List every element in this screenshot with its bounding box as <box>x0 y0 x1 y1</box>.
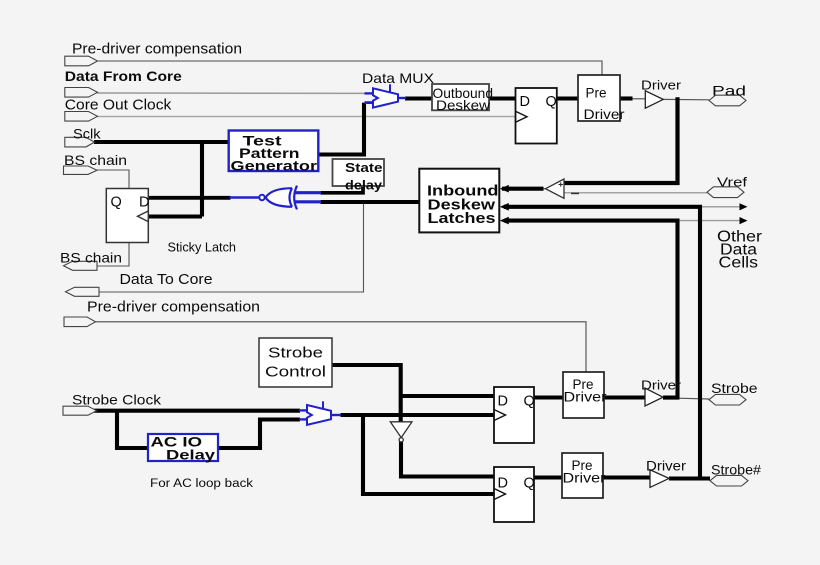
svg-text:Core Out Clock: Core Out Clock <box>65 98 172 114</box>
svg-text:delay: delay <box>345 178 383 193</box>
net label BS chain (output) <box>60 250 122 266</box>
wire sticky latch scan-out to BS chain output <box>97 243 129 267</box>
Test Pattern Generator block <box>229 131 319 174</box>
junction arrowhead into Inbound Deskew Latches upper feedback <box>500 203 509 211</box>
arrowhead to other data cells lower <box>740 217 748 224</box>
wire driver U12 output to Strobe# port <box>669 476 710 480</box>
mux strobe clock U3b <box>299 401 341 425</box>
net label Pre-driver compensation (bottom) <box>87 299 260 316</box>
svg-text:Cells: Cells <box>719 255 759 272</box>
svg-text:Data To Core: Data To Core <box>120 272 213 288</box>
svg-text:Driver: Driver <box>563 471 607 486</box>
wire driver U9 output to strobe net junction <box>663 396 680 400</box>
wire receiver U7 output stub <box>543 188 547 190</box>
net label Vref <box>717 175 747 190</box>
svg-text:D: D <box>498 394 508 410</box>
Pre Driver U8 block <box>563 372 607 418</box>
wire strobe# flip-flop Q to Pre Driver U11 <box>534 475 562 479</box>
wire Vref to receiver minus input <box>564 192 707 194</box>
svg-text:For AC loop back: For AC loop back <box>150 478 253 490</box>
wire strobe feedback into Inbound Deskew Latches (upper) <box>504 207 700 479</box>
Outbound Deskew block <box>432 84 493 113</box>
label For AC loop back <box>150 478 253 490</box>
AC IO Delay block <box>148 434 218 463</box>
svg-text:Q: Q <box>524 394 535 410</box>
svg-text:D: D <box>139 195 149 211</box>
svg-text:Driver: Driver <box>641 378 682 393</box>
svg-text:State: State <box>345 160 383 175</box>
wire receiver U7 output to Inbound Deskew Latches <box>502 187 544 191</box>
svg-text:Latches: Latches <box>428 210 496 227</box>
driver U12 (strobe# driver) <box>650 470 669 488</box>
net label Data To Core <box>120 272 213 288</box>
svg-text:Q: Q <box>111 195 122 211</box>
port Pad (bidirectional) <box>709 95 746 106</box>
wire Pre-driver compensation (top) to Pre Driver U5 <box>97 61 602 76</box>
port Data From Core input <box>65 88 98 98</box>
svg-text:Q: Q <box>546 94 557 110</box>
wire Core Out Clock to outbound flip-flop clock <box>97 116 516 118</box>
svg-text:Driver: Driver <box>564 390 608 405</box>
svg-text:Deskew: Deskew <box>436 97 491 113</box>
svg-text:Driver: Driver <box>584 107 626 122</box>
wire driver U9 output to Strobe port <box>678 397 709 400</box>
wire Test Pattern Generator output up to Data MUX input <box>318 103 364 155</box>
svg-text:D: D <box>498 476 508 492</box>
svg-text:Driver: Driver <box>641 78 682 93</box>
svg-text:Delay: Delay <box>166 447 215 463</box>
label Other Data Cells <box>717 229 762 272</box>
sticky latch U2 <box>106 189 149 243</box>
port Vref input <box>707 187 744 198</box>
net label BS chain (input) <box>64 152 127 168</box>
net label Pad <box>712 83 746 99</box>
svg-text:Data From Core: Data From Core <box>65 68 182 84</box>
strobe flip-flop U13 <box>494 387 535 443</box>
svg-text:Strobe: Strobe <box>268 345 323 362</box>
wire strobe clock branch through AC IO Delay <box>117 411 300 448</box>
svg-text:Pad: Pad <box>712 83 746 99</box>
outbound deskew flip-flop U4 <box>516 88 557 144</box>
svg-text:Q: Q <box>524 476 535 492</box>
wire Sclk to Test Pattern Generator and sticky latch clock <box>94 140 229 216</box>
State delay block <box>333 159 385 193</box>
inverter U10 <box>390 422 412 442</box>
junction arrowhead into Inbound Deskew Latches lower feedback <box>500 217 509 225</box>
svg-text:Strobe Clock: Strobe Clock <box>72 392 162 408</box>
svg-text:Driver: Driver <box>646 459 687 474</box>
label Driver (strobe# driver U12) <box>646 459 687 474</box>
net label Strobe <box>711 381 758 396</box>
receiver comparator U7 (left facing) <box>546 179 580 198</box>
port Pre-driver compensation (bottom) input <box>64 317 96 327</box>
wire strobe flip-flop Q to Pre Driver U8 <box>534 395 563 399</box>
XNOR gate U1 (left facing) <box>230 186 322 210</box>
svg-text:Pre: Pre <box>586 86 607 101</box>
net label Pre-driver compensation (top) <box>72 41 242 58</box>
wire Data MUX output through Outbound Deskew to flip-flop D <box>405 96 516 100</box>
net label Sclk <box>73 126 102 142</box>
Pre Driver U5 block <box>578 75 625 122</box>
svg-text:Strobe: Strobe <box>711 381 758 396</box>
port Pre-driver compensation (top) input <box>65 56 98 66</box>
driver U6 (pad driver) <box>645 91 663 108</box>
wire Data To Core from inbound data net <box>99 202 364 292</box>
svg-text:Vref: Vref <box>717 175 747 190</box>
label Data MUX <box>362 70 435 86</box>
strobe# flip-flop U14 <box>494 467 535 522</box>
svg-text:BS chain: BS chain <box>60 250 122 266</box>
label Sticky Latch <box>168 241 237 255</box>
Strobe Control block <box>259 338 332 387</box>
port Core Out Clock input <box>65 112 98 122</box>
arrowhead to other data cells upper <box>740 203 748 210</box>
wire strobe feedback into Inbound Deskew Latches (lower) <box>504 221 678 398</box>
svg-text:Sclk: Sclk <box>73 126 102 142</box>
svg-text:Strobe#: Strobe# <box>711 463 762 478</box>
wire BS chain input to sticky latch scan-in <box>97 170 130 189</box>
port Strobe (bidirectional) <box>709 394 746 405</box>
port Strobe Clock input <box>63 406 97 415</box>
wire XNOR output to sticky latch D <box>148 196 231 200</box>
port Data To Core output <box>66 287 100 296</box>
wire State delay output to XNOR gate input <box>321 186 364 193</box>
wire pad net down to receiver input <box>564 97 678 183</box>
net label Strobe# <box>711 463 762 478</box>
svg-text:D: D <box>520 94 530 110</box>
wire pad net branch to other data cells (upper) <box>700 206 741 208</box>
wire Data From Core to Data MUX input <box>97 92 366 94</box>
net label Strobe Clock <box>72 392 162 408</box>
mux Data MUX U3 <box>365 84 407 107</box>
label Driver (pad driver U6) <box>641 78 682 93</box>
wire driver U6 output to Pad <box>663 98 709 100</box>
svg-text:Control: Control <box>265 364 326 381</box>
svg-text:Generator: Generator <box>231 158 318 174</box>
junction arrowhead into Inbound Deskew Latches from receiver <box>500 185 509 193</box>
svg-text:Pre-driver compensation: Pre-driver compensation <box>72 41 242 58</box>
wire pre driver U5 to driver U6 thin segment <box>632 98 646 100</box>
net label Data From Core <box>65 68 182 84</box>
wire Strobe Clock to strobe mux <box>94 409 300 413</box>
wire strobe net branch to other data cells (lower) <box>678 220 741 222</box>
label Driver (strobe driver U9) <box>641 378 682 393</box>
port Strobe# (bidirectional) <box>710 475 748 486</box>
port BS chain input <box>64 166 98 174</box>
wire Pre Driver U8 to driver U9 <box>604 395 646 399</box>
wire Pre Driver U11 to driver U12 <box>603 475 650 479</box>
wire Strobe Control output to flip-flop D and inverter <box>332 365 494 422</box>
wire inverter U10 output to strobe# flip-flop D <box>401 442 494 477</box>
svg-text:Data MUX: Data MUX <box>362 70 435 86</box>
wire strobe mux output to strobe flip-flop clocks <box>341 415 495 494</box>
driver U9 (strobe driver) <box>645 388 663 406</box>
wire Pre-driver compensation (bottom) to strobe Pre Driver U8 <box>95 322 586 373</box>
wire inbound data out to XNOR gate and Data To Core tap <box>321 200 420 204</box>
wire outbound flip-flop Q to Pre Driver U5 <box>557 96 578 100</box>
svg-text:BS chain: BS chain <box>64 152 127 168</box>
port Sclk input <box>65 137 95 147</box>
Inbound Deskew Latches block <box>419 169 499 233</box>
Pre Driver U11 block <box>562 453 606 498</box>
wire Pre Driver U5 output stub <box>620 96 633 100</box>
port BS chain output <box>64 261 98 270</box>
net label Core Out Clock <box>65 98 172 114</box>
svg-text:Sticky Latch: Sticky Latch <box>168 241 237 255</box>
svg-text:Pre-driver compensation: Pre-driver compensation <box>87 299 260 316</box>
